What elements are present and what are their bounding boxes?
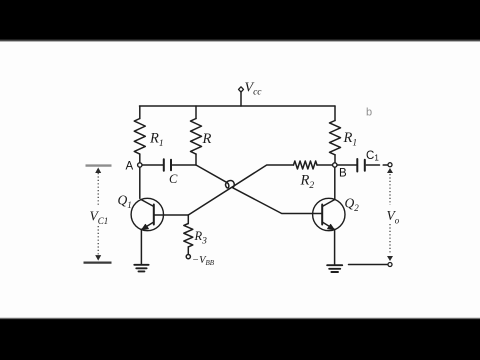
node: output terminal top (Vo+)	[388, 163, 392, 167]
transistor Q1	[131, 198, 163, 230]
svg-text:B: B	[339, 168, 347, 180]
svg-text:b: b	[366, 107, 372, 119]
wire: node A to capacitor C	[142, 164, 164, 166]
wire: node B to capacitor C1	[337, 164, 357, 166]
measurement Vo: dotted line with arrows	[387, 168, 393, 261]
wire: R3 to -Vbb terminal	[187, 247, 189, 255]
node Vcc terminal (diamond)	[239, 87, 244, 92]
svg-text:R: R	[202, 131, 212, 147]
wire: capacitor C to junction under R	[173, 164, 197, 166]
bottom letterbox bar	[0, 317, 480, 319]
wire: junction to Q2 base (descending diagonal with hop loop)	[196, 165, 322, 214]
resistor R2	[294, 161, 318, 169]
wire: node B down to Q2 collector	[334, 167, 336, 200]
measurement VC1: bottom reference bar	[84, 262, 112, 264]
capacitor C1	[357, 159, 365, 172]
wire: rail to R middle	[195, 106, 197, 119]
wire: rail to R1 left	[139, 106, 141, 119]
measurement VC1: dotted line with arrows	[95, 168, 101, 261]
svg-text:C: C	[169, 172, 178, 186]
wire: Vcc stub	[240, 92, 242, 106]
resistor R1 (right)	[330, 121, 341, 155]
ground (Q2 emitter)	[327, 265, 342, 272]
wire: Vcc top rail	[140, 105, 336, 107]
ground (Q1 emitter)	[134, 265, 148, 272]
node -Vbb terminal	[186, 255, 190, 259]
resistor R1 (left)	[134, 119, 145, 155]
resistor R (middle)	[191, 119, 202, 155]
wire: Q1 emitter to ground	[140, 230, 142, 265]
node: output terminal bottom (Vo-)	[388, 263, 392, 267]
wire: junction R3 to R2 (ascending diagonal)	[188, 165, 293, 215]
svg-text:A: A	[126, 161, 134, 173]
wire: node A down to Q1 collector	[139, 167, 141, 198]
wire: Q1 base to junction R3	[154, 214, 189, 216]
capacitor C	[164, 159, 171, 170]
top letterbox bar	[0, 0, 480, 40]
transistor Q2	[313, 198, 345, 230]
wire: R2 to node B	[317, 164, 333, 166]
node A	[138, 163, 142, 167]
wire: R1 right to node B	[334, 155, 336, 163]
wire: ground to output return terminal	[349, 264, 388, 266]
node B	[333, 163, 337, 167]
resistor R3	[184, 224, 193, 247]
wire: R bottom to junction	[195, 154, 197, 165]
measurement VC1: top reference bar	[86, 164, 112, 166]
wire: R1 left to node A	[139, 154, 141, 163]
wire: rail to R1 right	[334, 106, 336, 121]
wire: R3 junction down to resistor R3	[187, 215, 189, 224]
wire: capacitor C1 to output terminal	[366, 164, 388, 166]
wire: Q2 emitter to ground	[334, 230, 336, 265]
